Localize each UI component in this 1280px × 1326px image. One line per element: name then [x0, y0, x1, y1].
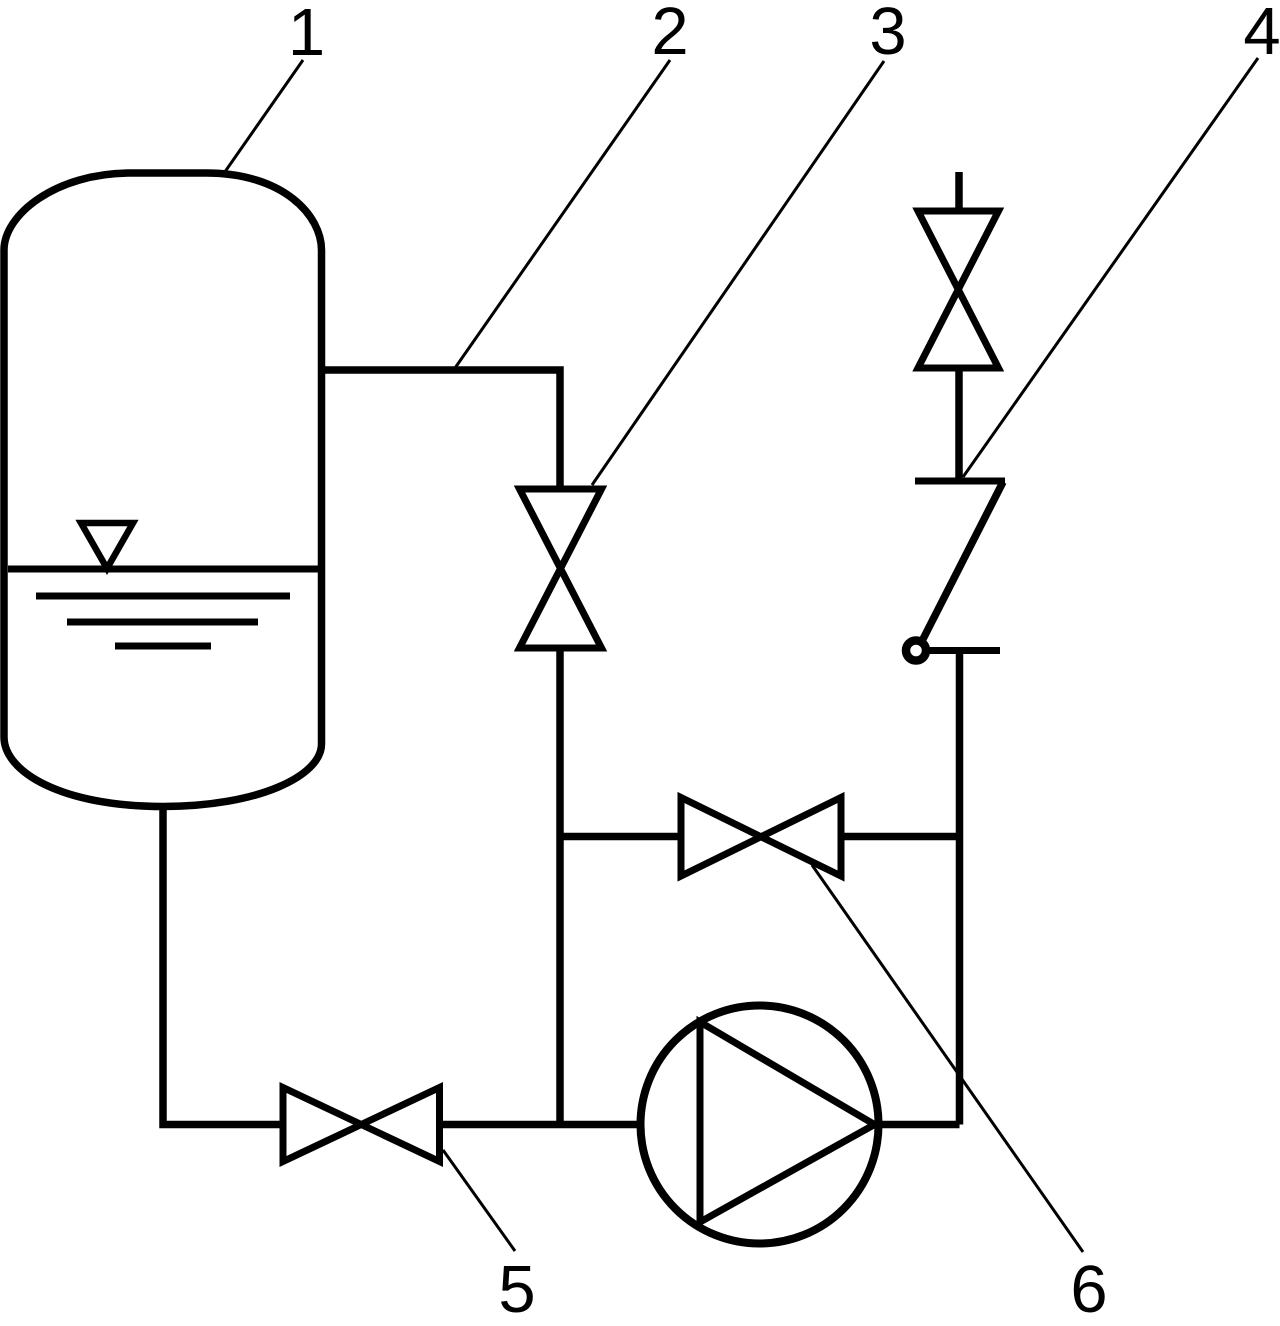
svg-text:1: 1: [288, 0, 325, 70]
svg-text:3: 3: [869, 0, 906, 69]
svg-text:6: 6: [1070, 1252, 1107, 1326]
svg-text:2: 2: [651, 0, 688, 69]
svg-text:5: 5: [498, 1252, 535, 1326]
svg-text:4: 4: [1243, 0, 1280, 69]
